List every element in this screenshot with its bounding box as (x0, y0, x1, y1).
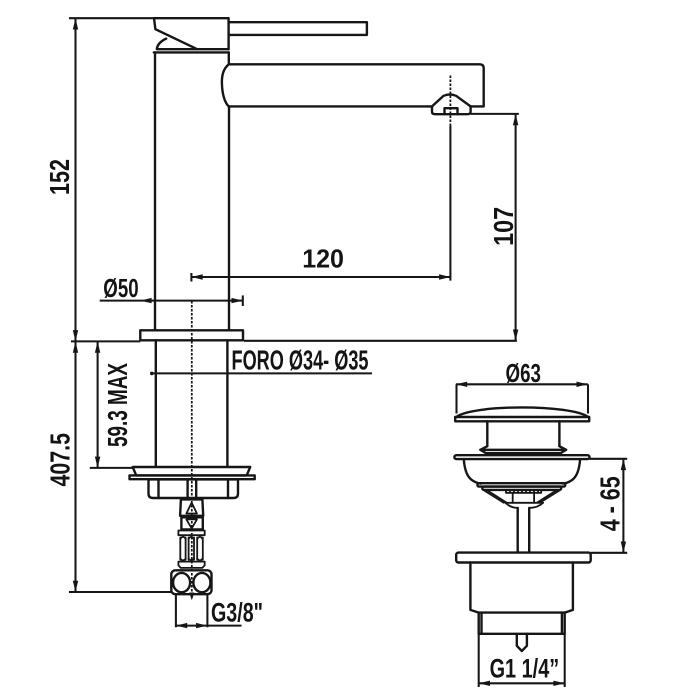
svg-text:107: 107 (488, 207, 519, 246)
svg-text:G1 1/4”: G1 1/4” (490, 654, 560, 684)
svg-text:407.5: 407.5 (44, 433, 75, 487)
svg-text:Ø63: Ø63 (506, 358, 541, 388)
svg-text:59.3 MAX: 59.3 MAX (102, 363, 133, 447)
svg-text:4 - 65: 4 - 65 (594, 476, 625, 531)
svg-text:G3/8": G3/8" (211, 598, 263, 628)
svg-text:Ø50: Ø50 (103, 273, 138, 303)
svg-text:152: 152 (44, 159, 75, 195)
svg-text:120: 120 (302, 244, 344, 274)
svg-text:FORO Ø34- Ø35: FORO Ø34- Ø35 (232, 345, 369, 376)
